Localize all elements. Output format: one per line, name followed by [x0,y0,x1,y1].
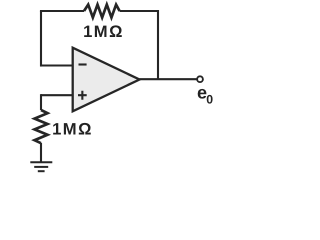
svg-text:1MΩ: 1MΩ [52,120,93,139]
wire: top horizontal left of R1 [40,10,84,12]
wire: feedback right vertical [157,10,159,79]
wire: output horizontal [140,78,198,80]
resistor R2 (1M ohm to ground) zigzag [35,110,48,143]
node e0 output terminal circle [197,76,203,82]
svg-text:0: 0 [206,93,213,107]
wire: non-inverting input horizontal [41,94,73,96]
wire: left vertical to R2 [40,94,42,110]
wire: R2 to ground [40,143,42,162]
op-amp plus pin marker [78,91,87,100]
op-amp U1 triangle [73,48,140,112]
resistor R1 (1M ohm feedback) zigzag [84,5,120,18]
svg-text:1MΩ: 1MΩ [83,22,124,41]
wire: inverting input horizontal [41,64,73,66]
wire: feedback left vertical [40,11,42,67]
wire: top horizontal right of R1 [120,10,158,12]
op-amp minus pin marker [79,63,87,65]
ground symbol [30,162,52,171]
